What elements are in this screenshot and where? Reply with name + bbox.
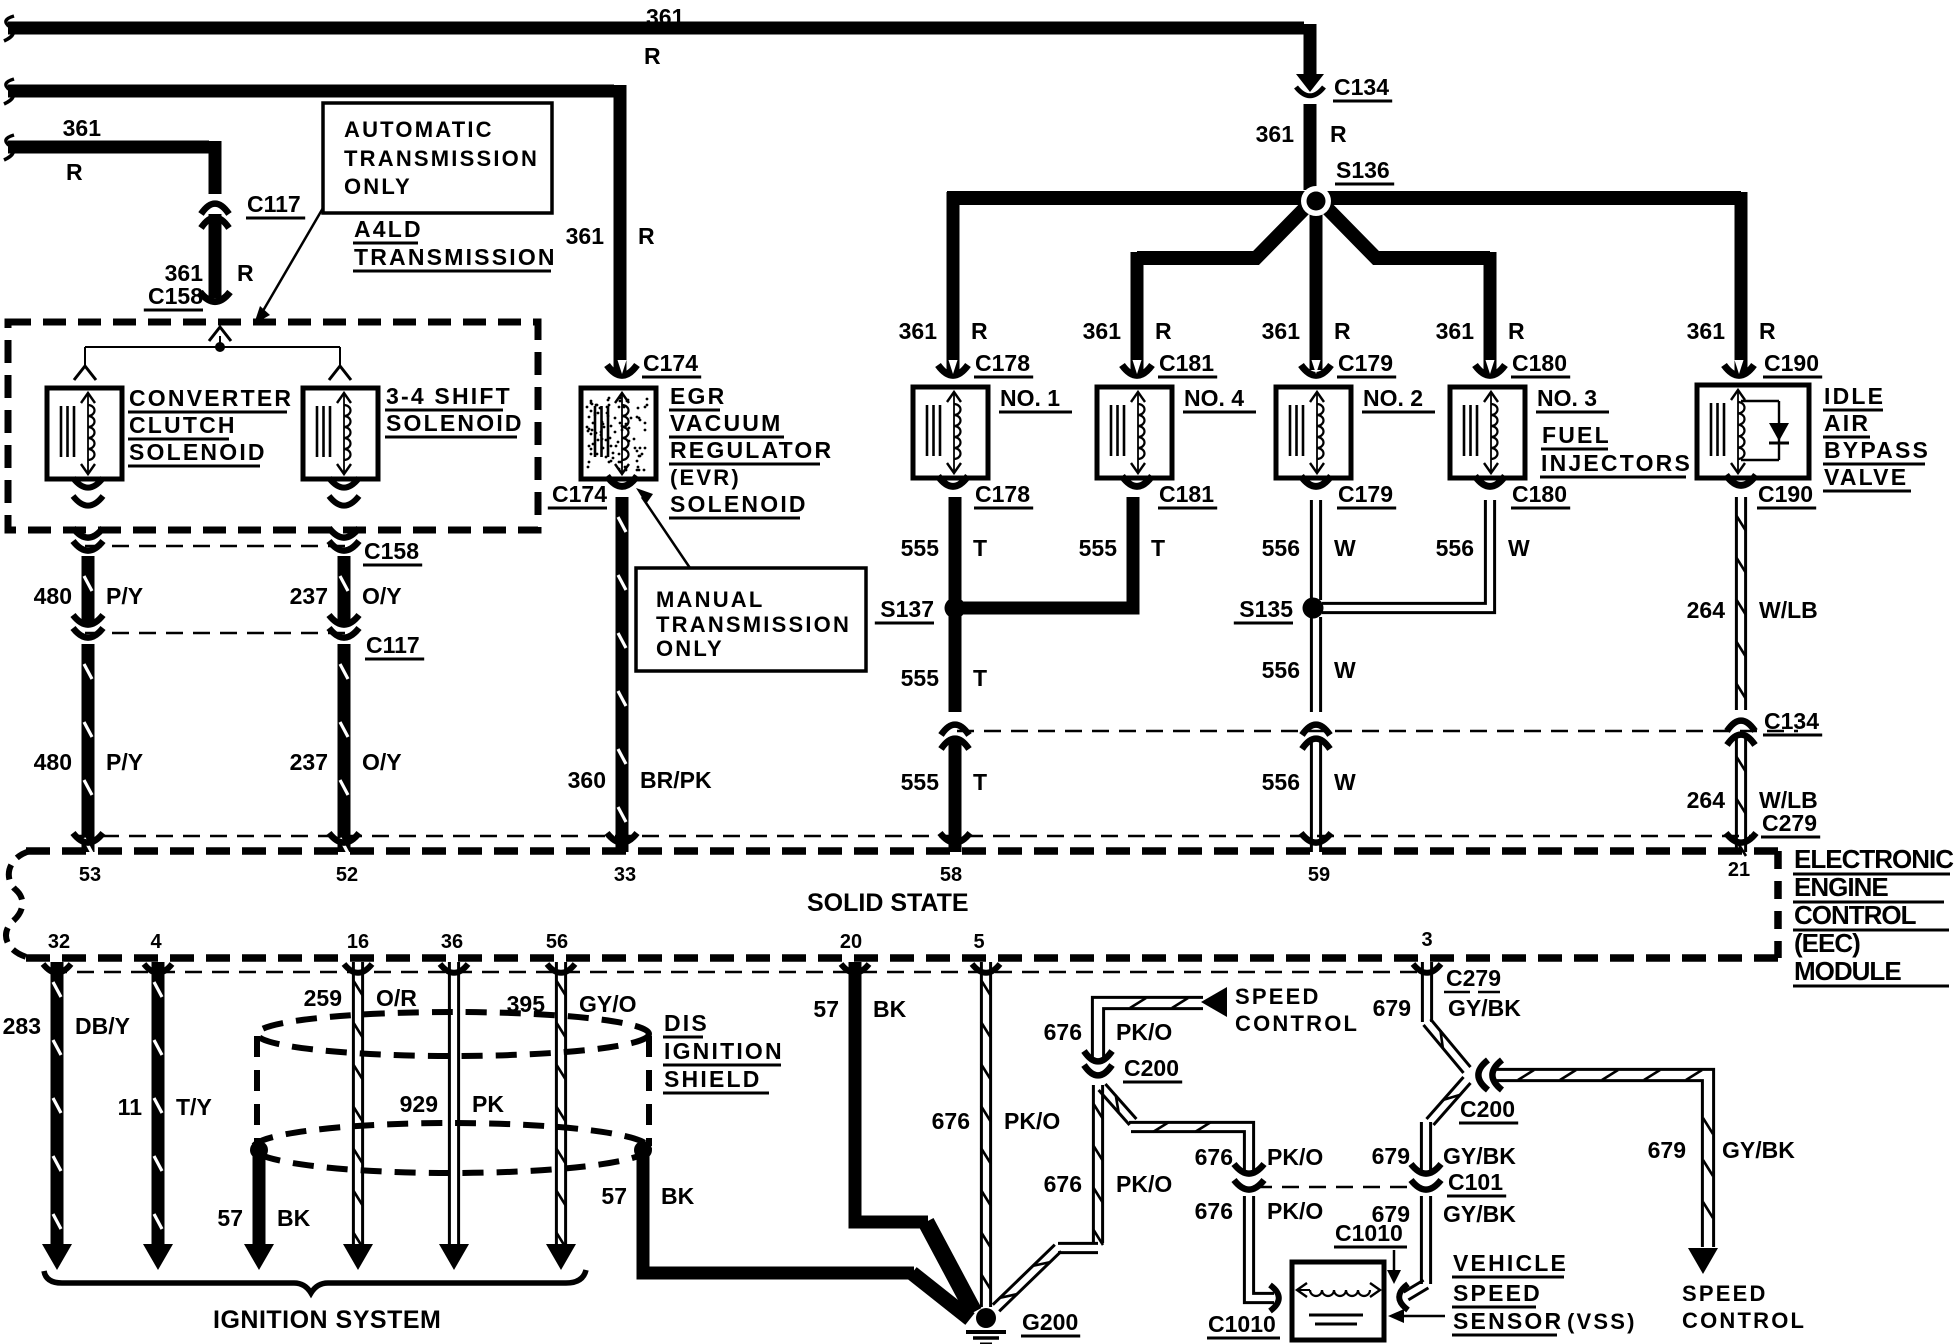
svg-text:INJECTORS: INJECTORS xyxy=(1541,450,1692,476)
svg-text:CLUTCH: CLUTCH xyxy=(129,412,237,438)
svg-text:W: W xyxy=(1334,769,1356,795)
svg-text:555: 555 xyxy=(1079,535,1118,561)
label CONTROL (upper) xyxy=(1235,1011,1359,1036)
label CLUTCH xyxy=(128,412,237,439)
fuel injector NO. 2 xyxy=(1276,387,1351,478)
label C174 top xyxy=(642,350,701,377)
svg-text:BR/PK: BR/PK xyxy=(640,767,712,793)
label 929 xyxy=(400,1091,438,1117)
label 57 (left) xyxy=(217,1205,243,1231)
svg-text:360: 360 xyxy=(568,767,606,793)
svg-text:20: 20 xyxy=(840,931,862,953)
label 361 (third feed) xyxy=(63,115,102,141)
wire 395 GY/O xyxy=(546,962,576,1270)
label 259 xyxy=(304,985,342,1011)
wire 679 GY/BK C200 to C101 xyxy=(1421,1077,1470,1172)
label IGNITION (shield) xyxy=(663,1038,784,1065)
svg-text:C174: C174 xyxy=(643,350,698,376)
label C117 (connector line) xyxy=(365,632,424,659)
label C200 left xyxy=(1123,1055,1182,1082)
connector C158 right half xyxy=(329,528,359,551)
label C158 (connector line) xyxy=(363,538,422,565)
label MODULE xyxy=(1793,956,1949,986)
svg-text:361: 361 xyxy=(63,115,102,141)
connector C181 bottom xyxy=(1122,476,1152,486)
converter clutch solenoid xyxy=(47,388,122,479)
label GY/BK (pin 3) xyxy=(1448,995,1521,1021)
label C181 bottom xyxy=(1158,481,1217,508)
label 361 R at x=1316 xyxy=(1262,318,1351,344)
wire 676 PK/O C200 to C101 xyxy=(1099,1084,1254,1172)
callout box MANUAL TRANSMISSION ONLY xyxy=(636,568,866,671)
svg-text:57: 57 xyxy=(217,1205,243,1231)
label SOLENOID (3-4 shift) xyxy=(385,410,524,437)
label C179 top xyxy=(1337,350,1396,377)
label P/Y lower xyxy=(106,749,143,775)
svg-text:GY/BK: GY/BK xyxy=(1443,1143,1516,1169)
label 555 T row3 xyxy=(901,769,987,795)
label 361 (S136 drop) xyxy=(1256,121,1295,147)
wire 676 PK/O to speed control xyxy=(1092,997,1203,1058)
svg-text:ONLY: ONLY xyxy=(344,174,412,199)
svg-text:TRANSMISSION: TRANSMISSION xyxy=(344,146,539,171)
connector line C134 xyxy=(957,730,1798,733)
wire 676 PK/O from EEC pin 5 xyxy=(981,962,991,1307)
connector C200 right xyxy=(1478,1060,1502,1090)
svg-text:(EVR): (EVR) xyxy=(670,465,741,490)
label NO. 1 xyxy=(999,385,1072,412)
ground G200 xyxy=(966,1308,1006,1344)
wire 676 PK/O C101 to VSS xyxy=(1244,1196,1274,1303)
label 57 (pin 20) xyxy=(813,996,839,1022)
svg-text:C200: C200 xyxy=(1124,1055,1179,1081)
wire 283 DB/Y xyxy=(42,962,72,1270)
wire 555 T below C134 xyxy=(949,740,962,852)
connector below EEC at x=454 xyxy=(440,964,468,973)
wire 480 P/Y upper xyxy=(84,556,92,626)
svg-text:GY/O: GY/O xyxy=(579,991,637,1017)
svg-text:679: 679 xyxy=(1648,1137,1686,1163)
svg-text:361: 361 xyxy=(1262,318,1301,344)
label O/R xyxy=(376,985,417,1011)
svg-text:W: W xyxy=(1334,657,1356,683)
label 555 T row1 right xyxy=(1079,535,1165,561)
svg-text:(VSS): (VSS) xyxy=(1567,1309,1637,1334)
wire 929 PK xyxy=(439,962,469,1270)
svg-text:NO. 1: NO. 1 xyxy=(1000,385,1060,411)
wire 361 R second feed (to C174 EGR) xyxy=(4,79,620,372)
ignition system brace xyxy=(44,1270,586,1293)
label 480 upper xyxy=(34,583,72,609)
svg-text:TRANSMISSION: TRANSMISSION xyxy=(354,244,557,270)
EEC pin 36 xyxy=(441,931,463,953)
label 679 (pin 3) xyxy=(1373,995,1411,1021)
svg-text:361: 361 xyxy=(1687,318,1726,344)
wire 361 R third feed (to C117) xyxy=(4,135,215,194)
svg-text:PK: PK xyxy=(472,1091,504,1117)
svg-text:53: 53 xyxy=(79,864,101,886)
A4LD transmission dashed box xyxy=(8,322,538,530)
label PK/O above C101 xyxy=(1267,1144,1323,1170)
label EGR xyxy=(669,383,726,410)
svg-text:C179: C179 xyxy=(1338,481,1393,507)
svg-text:PK/O: PK/O xyxy=(1267,1144,1323,1170)
svg-text:555: 555 xyxy=(901,535,940,561)
label R above C158 xyxy=(237,260,254,286)
wire 679 GY/BK to speed control xyxy=(1496,1069,1714,1247)
wire drop to injector 2 xyxy=(1310,198,1323,370)
connector C174 bottom xyxy=(607,476,637,486)
connector C158 left half xyxy=(73,528,103,551)
connector C279 top at x=1316 xyxy=(1301,833,1331,843)
svg-text:C158: C158 xyxy=(148,283,203,309)
label 361 (top wire) xyxy=(646,4,685,30)
svg-text:C178: C178 xyxy=(975,481,1030,507)
A4LD internal harness xyxy=(74,327,351,380)
svg-text:32: 32 xyxy=(48,931,70,953)
label C190 top xyxy=(1763,350,1822,377)
label 283 xyxy=(3,1013,41,1039)
label PK/O (pin5 wire) xyxy=(1004,1108,1060,1134)
svg-text:CONTROL: CONTROL xyxy=(1235,1011,1359,1036)
svg-text:DIS: DIS xyxy=(664,1010,709,1036)
label 676 (pin5 wire) xyxy=(932,1108,970,1134)
label C279 right xyxy=(1761,810,1820,837)
connector C179 top xyxy=(1301,360,1331,375)
label R (third feed) xyxy=(66,159,83,185)
3-4 shift solenoid xyxy=(303,388,378,479)
wire 264 W/LB upper xyxy=(1736,497,1746,710)
svg-text:NO. 4: NO. 4 xyxy=(1184,385,1244,411)
svg-text:W: W xyxy=(1508,535,1530,561)
label C174 bottom xyxy=(548,481,607,508)
svg-text:T: T xyxy=(973,769,987,795)
callout box AUTOMATIC TRANSMISSION ONLY xyxy=(323,103,552,213)
svg-text:VALVE: VALVE xyxy=(1824,464,1908,490)
label C180 bottom xyxy=(1511,481,1570,508)
svg-text:AUTOMATIC: AUTOMATIC xyxy=(344,117,494,142)
label 3-4 SHIFT xyxy=(385,383,512,410)
svg-text:PK/O: PK/O xyxy=(1267,1198,1323,1224)
svg-text:(EEC): (EEC) xyxy=(1794,928,1860,958)
svg-text:361: 361 xyxy=(1256,121,1295,147)
wire 555 T from C181 xyxy=(961,497,1133,608)
svg-text:480: 480 xyxy=(34,583,72,609)
svg-text:676: 676 xyxy=(932,1108,970,1134)
svg-text:R: R xyxy=(971,318,988,344)
label BYPASS xyxy=(1823,437,1930,464)
svg-text:361: 361 xyxy=(646,4,685,30)
svg-text:VACUUM: VACUUM xyxy=(670,410,782,436)
label C180 top xyxy=(1511,350,1570,377)
label PK/O above C200 xyxy=(1116,1019,1172,1045)
label C279 at pin 3 xyxy=(1444,965,1501,992)
label 361 R at x=1741 xyxy=(1687,318,1776,344)
splice S135 xyxy=(1303,598,1324,619)
connector C174 top xyxy=(607,360,637,375)
wire 361 R top feed (to C134) xyxy=(4,16,1310,74)
svg-text:R: R xyxy=(1334,318,1351,344)
connector line C117 lower xyxy=(85,632,350,635)
svg-text:556: 556 xyxy=(1262,769,1300,795)
connector C158 wire end xyxy=(200,292,230,302)
DIS ignition shield cylinder xyxy=(253,1012,649,1173)
callout leader arrow to EGR xyxy=(636,488,690,568)
connector line C101 xyxy=(1255,1186,1418,1189)
svg-text:C179: C179 xyxy=(1338,350,1393,376)
label O/Y lower xyxy=(362,749,402,775)
wire 264 W/LB lower xyxy=(1736,738,1746,856)
svg-text:361: 361 xyxy=(899,318,938,344)
svg-text:33: 33 xyxy=(614,864,636,886)
svg-text:R: R xyxy=(1155,318,1172,344)
svg-text:SPEED: SPEED xyxy=(1453,1280,1542,1306)
svg-text:555: 555 xyxy=(901,665,940,691)
svg-text:GY/BK: GY/BK xyxy=(1443,1201,1516,1227)
svg-text:O/Y: O/Y xyxy=(362,583,402,609)
connector C180 top xyxy=(1475,360,1505,375)
svg-text:DB/Y: DB/Y xyxy=(75,1013,130,1039)
svg-text:PK/O: PK/O xyxy=(1004,1108,1060,1134)
connector C134 on 264 xyxy=(1727,721,1755,745)
svg-text:IGNITION SYSTEM: IGNITION SYSTEM xyxy=(213,1306,441,1334)
connector C117 on 480 xyxy=(73,615,103,638)
svg-text:C180: C180 xyxy=(1512,481,1567,507)
label IDLE xyxy=(1823,383,1885,410)
svg-text:SOLENOID: SOLENOID xyxy=(129,439,267,465)
svg-text:BK: BK xyxy=(873,996,907,1022)
svg-text:O/R: O/R xyxy=(376,985,417,1011)
label C200 right xyxy=(1459,1096,1518,1123)
svg-text:C180: C180 xyxy=(1512,350,1567,376)
label FUEL xyxy=(1541,422,1611,449)
label SPEED (lower) xyxy=(1682,1281,1768,1306)
svg-text:676: 676 xyxy=(1195,1198,1233,1224)
label R (EGR drop) xyxy=(638,223,655,249)
svg-text:EGR: EGR xyxy=(670,383,726,409)
svg-text:AIR: AIR xyxy=(1824,410,1870,436)
svg-text:ELECTRONIC: ELECTRONIC xyxy=(1794,844,1954,874)
label 676 below C101 xyxy=(1195,1198,1233,1224)
svg-text:R: R xyxy=(1759,318,1776,344)
EEC pin 4 xyxy=(150,931,162,953)
connector C181 top xyxy=(1122,360,1152,375)
svg-text:T/Y: T/Y xyxy=(176,1094,212,1120)
svg-text:S136: S136 xyxy=(1336,157,1390,183)
label O/Y upper xyxy=(362,583,402,609)
svg-text:58: 58 xyxy=(940,864,962,886)
wire 361 R C134 to S136 xyxy=(1304,104,1317,190)
splice S136 xyxy=(1301,186,1331,216)
svg-text:16: 16 xyxy=(347,931,369,953)
EEC module dashed border xyxy=(6,851,1778,958)
connector line C279 top xyxy=(75,835,1752,838)
svg-text:C174: C174 xyxy=(552,481,607,507)
wire 57 BK from EEC pin 20 xyxy=(855,962,974,1312)
connector C180 bottom xyxy=(1475,476,1505,486)
connector C101 on 676 xyxy=(1234,1164,1264,1190)
wire 480 P/Y lower xyxy=(84,644,92,853)
EEC pin 3 xyxy=(1421,929,1432,951)
label C178 top xyxy=(974,350,1033,377)
VSS internal coil xyxy=(1297,1283,1380,1324)
label R (top wire) xyxy=(644,43,661,69)
callout leader arrow to A4LD box xyxy=(254,208,323,324)
wire 556 W below S135 xyxy=(1311,617,1320,712)
svg-text:237: 237 xyxy=(290,749,328,775)
label C101 xyxy=(1447,1169,1506,1196)
label SENSOR xyxy=(1452,1308,1563,1335)
svg-text:361: 361 xyxy=(1436,318,1475,344)
label 480 lower xyxy=(34,749,72,775)
wire 259 O/R xyxy=(343,962,373,1270)
svg-text:5: 5 xyxy=(973,931,984,953)
connector C279 top at x=344 xyxy=(329,833,359,843)
svg-text:57: 57 xyxy=(601,1183,627,1209)
fuel injector NO. 1 xyxy=(913,387,988,478)
svg-text:W: W xyxy=(1334,535,1356,561)
EEC pin 5 xyxy=(973,931,984,953)
connector below EEC at x=855 xyxy=(841,964,869,973)
svg-text:C117: C117 xyxy=(366,632,420,658)
svg-text:CONTROL: CONTROL xyxy=(1682,1308,1806,1333)
svg-text:T: T xyxy=(1151,535,1165,561)
label NO. 3 xyxy=(1536,385,1609,412)
EEC pin 59 xyxy=(1308,864,1330,886)
svg-text:556: 556 xyxy=(1262,657,1300,683)
label 361 R at x=1490 xyxy=(1436,318,1525,344)
EEC pin 20 xyxy=(840,931,862,953)
label VALVE xyxy=(1823,464,1911,491)
label AIR xyxy=(1823,410,1870,437)
svg-text:SHIELD: SHIELD xyxy=(664,1066,762,1092)
EGR vacuum regulator solenoid xyxy=(581,388,656,479)
label S136 xyxy=(1335,157,1394,184)
speed control arrow (lower) xyxy=(1688,1248,1718,1274)
wire 237 O/Y upper xyxy=(340,556,348,626)
connector C134 on 556 xyxy=(1302,725,1330,749)
svg-text:W/LB: W/LB xyxy=(1759,597,1818,623)
svg-text:BK: BK xyxy=(277,1205,311,1231)
connector C1010 right xyxy=(1399,1284,1408,1310)
svg-text:SENSOR: SENSOR xyxy=(1453,1308,1563,1334)
label CONTROL xyxy=(1793,900,1949,930)
svg-text:PK/O: PK/O xyxy=(1116,1171,1172,1197)
svg-text:555: 555 xyxy=(901,769,940,795)
wire diagonal to injector 4 xyxy=(1137,203,1310,372)
label 361 R at x=953 xyxy=(899,318,988,344)
svg-text:361: 361 xyxy=(566,223,605,249)
svg-text:4: 4 xyxy=(150,931,162,953)
connector C200 left xyxy=(1084,1051,1112,1075)
connector C190 top xyxy=(1724,360,1754,375)
svg-text:SOLENOID: SOLENOID xyxy=(386,410,524,436)
label 11 xyxy=(118,1094,143,1120)
label GY/BK (speed control) xyxy=(1722,1137,1795,1163)
svg-text:VEHICLE: VEHICLE xyxy=(1453,1250,1568,1276)
connector C190 bottom xyxy=(1726,475,1756,485)
label P/Y upper xyxy=(106,583,143,609)
svg-text:NO. 2: NO. 2 xyxy=(1363,385,1423,411)
label GY/BK above C101 xyxy=(1443,1143,1516,1169)
label TRANSMISSION (A4LD) xyxy=(353,244,557,271)
svg-text:264: 264 xyxy=(1687,597,1726,623)
connector C279 top at x=955 xyxy=(940,833,970,843)
label 57 (right) xyxy=(601,1183,627,1209)
svg-text:676: 676 xyxy=(1195,1144,1233,1170)
EEC pin 21 xyxy=(1728,859,1750,881)
label BK (pin 20) xyxy=(873,996,907,1022)
svg-text:SPEED: SPEED xyxy=(1682,1281,1768,1306)
connector C1010 left xyxy=(1270,1285,1279,1311)
svg-text:259: 259 xyxy=(304,985,342,1011)
label GY/O xyxy=(579,991,637,1017)
C1010 label arrow xyxy=(1387,1250,1401,1284)
svg-text:G200: G200 xyxy=(1022,1309,1078,1335)
label BK (left) xyxy=(277,1205,311,1231)
svg-text:R: R xyxy=(237,260,254,286)
label 556 W row3 xyxy=(1262,769,1356,795)
EEC pin 33 xyxy=(614,864,636,886)
svg-text:C1010: C1010 xyxy=(1208,1311,1276,1337)
label 556 W row2 xyxy=(1262,657,1356,683)
svg-text:REGULATOR: REGULATOR xyxy=(670,437,833,463)
svg-text:R: R xyxy=(66,159,83,185)
label 679 above C101 xyxy=(1372,1143,1410,1169)
EEC pin 56 xyxy=(546,931,568,953)
EEC pin 58 xyxy=(940,864,962,886)
svg-text:C134: C134 xyxy=(1334,74,1389,100)
svg-text:PK/O: PK/O xyxy=(1116,1019,1172,1045)
wire 11 T/Y xyxy=(143,962,173,1270)
svg-text:57: 57 xyxy=(813,996,839,1022)
label G200 xyxy=(1021,1309,1080,1336)
label S137 xyxy=(875,596,934,623)
svg-text:C134: C134 xyxy=(1764,708,1819,734)
connector line C158 xyxy=(85,545,350,548)
label A4LD xyxy=(353,216,423,243)
svg-text:679: 679 xyxy=(1372,1143,1410,1169)
shift solenoid exit chevrons xyxy=(329,478,359,506)
label 676 above C101 xyxy=(1195,1144,1233,1170)
label 264 W/LB lower xyxy=(1687,787,1818,813)
wire 360 BR/PK xyxy=(618,497,626,852)
label C134 top xyxy=(1333,74,1392,101)
EEC pin 52 xyxy=(336,864,358,886)
svg-text:676: 676 xyxy=(1044,1019,1082,1045)
label 360 xyxy=(568,767,606,793)
wire 57 BK shield right drain xyxy=(643,1150,970,1319)
svg-text:CONVERTER: CONVERTER xyxy=(129,385,293,411)
label SPEED (VSS) xyxy=(1452,1280,1542,1307)
svg-text:P/Y: P/Y xyxy=(106,749,143,775)
svg-text:C181: C181 xyxy=(1159,481,1214,507)
svg-text:676: 676 xyxy=(1044,1171,1082,1197)
connector line below EEC xyxy=(50,971,1430,974)
svg-text:MODULE: MODULE xyxy=(1794,956,1901,986)
svg-text:36: 36 xyxy=(441,931,463,953)
connector C178 bottom xyxy=(938,476,968,486)
label C178 bottom xyxy=(974,481,1033,508)
svg-text:C200: C200 xyxy=(1460,1096,1515,1122)
label 679 below C101 xyxy=(1372,1201,1410,1227)
connector C279 top at x=622 xyxy=(607,833,637,843)
label DB/Y xyxy=(75,1013,130,1039)
label SOLID STATE xyxy=(807,889,969,917)
svg-text:IGNITION: IGNITION xyxy=(664,1038,784,1064)
svg-text:R: R xyxy=(1508,318,1525,344)
svg-text:11: 11 xyxy=(118,1094,143,1120)
